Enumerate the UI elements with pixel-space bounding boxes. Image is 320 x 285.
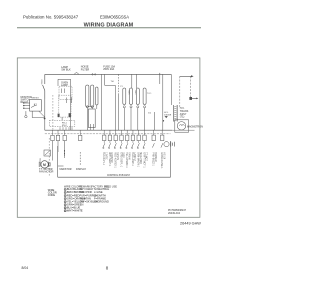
svg-text:8: 8 xyxy=(106,265,109,270)
svg-text:GRN: GRN xyxy=(40,80,42,85)
svg-text:RED-KEYBD-1: RED-KEYBD-1 xyxy=(114,152,116,168)
svg-text:SW2: SW2 xyxy=(134,90,136,95)
svg-text:250V 20A: 250V 20A xyxy=(103,68,114,71)
svg-text:SW BLK: SW BLK xyxy=(61,69,71,72)
svg-text:KEY-IN: KEY-IN xyxy=(116,152,118,160)
svg-text:DISP: DISP xyxy=(122,152,124,158)
svg-text:FAN-HI: FAN-HI xyxy=(127,152,130,160)
svg-text:D1: D1 xyxy=(148,113,152,115)
svg-text:FAN MOTOR: FAN MOTOR xyxy=(39,171,54,174)
svg-text:LAMP-2: LAMP-2 xyxy=(133,152,136,161)
svg-text:GROUND: GROUND xyxy=(110,152,112,163)
svg-text:WHT-NEUT-1: WHT-NEUT-1 xyxy=(108,152,110,167)
svg-text:RY-2: RY-2 xyxy=(62,125,68,127)
svg-text:PNK-BUZZ-1: PNK-BUZZ-1 xyxy=(152,152,154,166)
svg-text:WHT=WHITE: WHT=WHITE xyxy=(67,209,83,213)
svg-text:GRY-TTMOT-1: GRY-TTMOT-1 xyxy=(142,152,144,168)
svg-text:TCO: TCO xyxy=(147,93,152,95)
svg-text:SW1: SW1 xyxy=(127,90,129,95)
svg-text:MAG-PWR: MAG-PWR xyxy=(139,152,142,164)
svg-text:(T1): (T1) xyxy=(180,116,185,119)
svg-text:12VDC: 12VDC xyxy=(104,152,106,160)
svg-text:26449 A04: 26449 A04 xyxy=(168,212,181,215)
svg-text:TT-MOT: TT-MOT xyxy=(145,152,147,161)
svg-text:8/04: 8/04 xyxy=(22,266,29,270)
svg-text:CODE: CODE xyxy=(48,194,56,197)
svg-text:FILTER: FILTER xyxy=(81,68,90,71)
svg-text:RELAY: RELAY xyxy=(21,101,29,104)
svg-text:DISPLAY: DISPLAY xyxy=(76,168,86,171)
svg-text:M: M xyxy=(43,163,46,167)
svg-text:VARISTOR: VARISTOR xyxy=(59,168,71,171)
svg-text:TH: TH xyxy=(111,81,114,83)
svg-text:P1: P1 xyxy=(120,86,123,88)
svg-text:ORG-DISPL-1: ORG-DISPL-1 xyxy=(119,152,121,167)
svg-text:Publication No. 5995438247: Publication No. 5995438247 xyxy=(23,15,79,20)
svg-text:BUZZER: BUZZER xyxy=(154,152,156,162)
svg-text:CONTROL PCB ASSY: CONTROL PCB ASSY xyxy=(107,174,131,177)
svg-text:MAGNETRON: MAGNETRON xyxy=(187,126,203,129)
svg-text:BLK-RLY1-1: BLK-RLY1-1 xyxy=(102,152,104,165)
svg-text:26449 GHW: 26449 GHW xyxy=(180,222,201,226)
svg-text:AC-LN: AC-LN xyxy=(162,152,165,159)
svg-text:E30MO65GSSA: E30MO65GSSA xyxy=(100,14,129,19)
svg-text:LAMP: LAMP xyxy=(61,84,68,87)
svg-text:G=GROUND: G=GROUND xyxy=(94,199,109,203)
